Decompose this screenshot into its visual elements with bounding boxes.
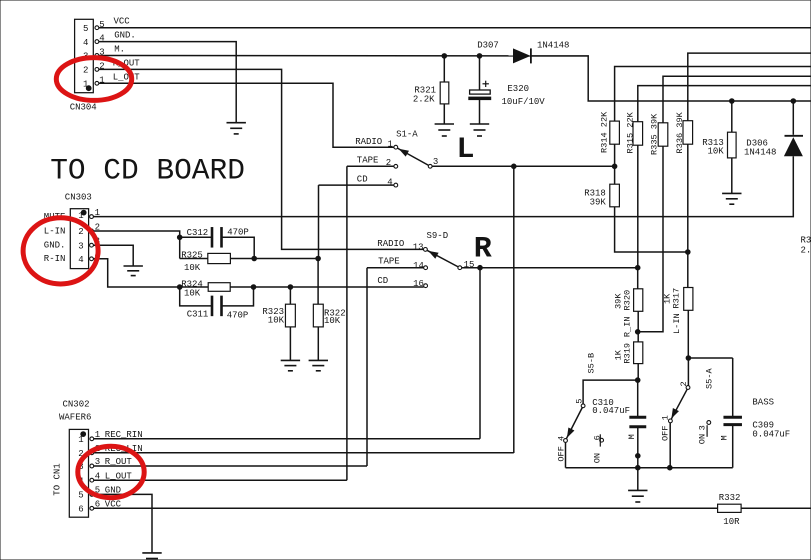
svg-text:4: 4 <box>83 38 88 48</box>
svg-text:5: 5 <box>78 491 83 501</box>
svg-text:S1-A: S1-A <box>396 129 418 139</box>
svg-text:1N4148: 1N4148 <box>744 147 776 157</box>
svg-text:3: 3 <box>433 157 438 167</box>
svg-text:4: 4 <box>78 255 83 265</box>
svg-text:2: 2 <box>78 227 83 237</box>
svg-text:WAFER6: WAFER6 <box>59 413 91 423</box>
svg-text:R320: R320 <box>623 290 633 311</box>
svg-text:M: M <box>719 435 729 440</box>
svg-text:L-IN: L-IN <box>672 313 682 334</box>
svg-text:R: R <box>474 232 492 266</box>
svg-text:1N4148: 1N4148 <box>537 40 569 50</box>
svg-text:1: 1 <box>83 80 88 90</box>
svg-text:M: M <box>627 434 637 439</box>
svg-text:6: 6 <box>592 435 602 440</box>
svg-text:OFF 1: OFF 1 <box>660 415 670 441</box>
svg-text:S5-A: S5-A <box>705 368 715 389</box>
svg-text:R336 39K: R336 39K <box>675 111 685 153</box>
svg-text:R3: R3 <box>801 236 811 246</box>
svg-text:R317: R317 <box>671 288 681 309</box>
svg-text:3: 3 <box>698 425 708 430</box>
svg-text:ON: ON <box>592 453 602 463</box>
svg-text:10R: 10R <box>723 517 740 527</box>
svg-text:10K: 10K <box>324 316 341 326</box>
svg-text:C311: C311 <box>187 310 209 320</box>
svg-text:10uF/10V: 10uF/10V <box>502 97 546 107</box>
svg-text:R315 22K: R315 22K <box>625 111 635 153</box>
svg-text:S5-B: S5-B <box>587 353 597 374</box>
svg-text:E320: E320 <box>507 84 529 94</box>
svg-text:TAPE: TAPE <box>378 257 400 267</box>
svg-text:VCC: VCC <box>114 17 131 27</box>
svg-text:1: 1 <box>388 139 393 149</box>
svg-text:10K: 10K <box>268 315 285 325</box>
svg-text:M.: M. <box>114 45 125 55</box>
svg-text:470P: 470P <box>227 310 249 320</box>
svg-text:13: 13 <box>413 243 424 253</box>
svg-text:2.2: 2.2 <box>801 245 811 255</box>
svg-text:L-IN: L-IN <box>44 226 66 236</box>
svg-text:GND.: GND. <box>114 31 136 41</box>
svg-text:CD: CD <box>377 276 388 286</box>
svg-text:TO CD BOARD: TO CD BOARD <box>50 153 245 187</box>
svg-text:BASS: BASS <box>752 398 774 408</box>
svg-text:GND.: GND. <box>44 241 66 251</box>
svg-text:0.047uF: 0.047uF <box>592 406 630 416</box>
svg-text:TAPE: TAPE <box>357 156 379 166</box>
svg-text:RADIO: RADIO <box>377 239 404 249</box>
svg-text:CN304: CN304 <box>70 103 97 113</box>
svg-text:14: 14 <box>413 261 424 271</box>
svg-text:470P: 470P <box>227 227 249 237</box>
svg-text:R319: R319 <box>623 343 633 364</box>
svg-text:2.2K: 2.2K <box>413 95 435 105</box>
svg-text:R314 22K: R314 22K <box>599 111 609 153</box>
svg-text:R332: R332 <box>719 493 741 503</box>
svg-text:R-IN: R-IN <box>44 254 66 264</box>
svg-text:CD: CD <box>357 175 368 185</box>
svg-text:16: 16 <box>413 279 424 289</box>
svg-text:ON: ON <box>698 434 708 444</box>
svg-text:10K: 10K <box>184 288 201 298</box>
svg-text:5: 5 <box>574 399 584 404</box>
svg-text:S9-D: S9-D <box>427 231 449 241</box>
svg-text:D307: D307 <box>477 40 499 50</box>
svg-text:1: 1 <box>78 435 83 445</box>
svg-text:10K: 10K <box>708 146 725 156</box>
svg-text:R335 39K: R335 39K <box>650 113 660 155</box>
svg-text:C312: C312 <box>187 228 209 238</box>
svg-text:L_OUT: L_OUT <box>113 72 141 82</box>
svg-text:R325: R325 <box>181 251 203 261</box>
svg-text:2: 2 <box>83 66 88 76</box>
svg-text:RADIO: RADIO <box>355 137 382 147</box>
svg-text:5: 5 <box>83 24 88 34</box>
svg-text:39K: 39K <box>590 198 607 208</box>
svg-text:R_IN: R_IN <box>623 316 633 337</box>
svg-text:L: L <box>457 133 475 167</box>
svg-text:3: 3 <box>78 241 83 251</box>
svg-text:TO CN1: TO CN1 <box>53 463 63 495</box>
svg-text:0.047uF: 0.047uF <box>752 430 790 440</box>
svg-text:10K: 10K <box>184 263 201 273</box>
svg-text:CN303: CN303 <box>65 192 92 202</box>
svg-text:2: 2 <box>679 381 689 386</box>
svg-text:CN302: CN302 <box>63 400 90 410</box>
svg-text:6: 6 <box>78 505 83 515</box>
